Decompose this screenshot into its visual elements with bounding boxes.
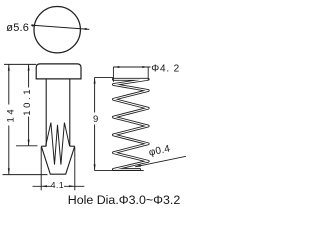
rivet stem left wall [45, 79, 47, 146]
barb ledge left [41, 145, 46, 147]
tapered legs and bottom face [41, 146, 74, 174]
top extension line 9 [95, 76, 114, 78]
spring coil white core [113, 79, 148, 169]
dimension line 14 [8, 64, 10, 174]
dimension line 9 [94, 77, 96, 170]
right prong [61, 123, 70, 165]
arrowhead left of ⌀5.6 [32, 24, 37, 26]
extension line 4.1 right [74, 147, 76, 190]
svg-text:Φ4. 2: Φ4. 2 [151, 64, 180, 75]
rivet stem right wall [69, 79, 71, 146]
extension line at barb level for 10.1 [16, 145, 38, 147]
svg-text:4.1: 4.1 [51, 180, 64, 190]
svg-text:φ0.4: φ0.4 [148, 143, 171, 158]
leader line φ0.4 [135, 156, 186, 167]
arrow 10.1 top [28, 65, 30, 71]
arrowhead right of ⌀5.6 [82, 28, 87, 30]
center spike [55, 125, 61, 165]
barb ledge right [70, 145, 75, 147]
arrow ⌀4.2 right [142, 66, 148, 68]
svg-text:10.1: 10.1 [22, 87, 33, 116]
top extension line left view [4, 63, 36, 65]
arrow 10.1 bottom [28, 140, 30, 146]
svg-text:Hole Dia.Φ3.0~Φ3.2: Hole Dia.Φ3.0~Φ3.2 [68, 193, 181, 207]
arrow 4.1 left [41, 185, 47, 187]
extension line 4.1 left [40, 147, 42, 190]
arrowhead φ0.4 [135, 164, 141, 167]
bottom extension line 9 [95, 170, 144, 172]
svg-text:9: 9 [93, 114, 98, 125]
left prong [46, 123, 55, 165]
svg-text:ø5.6: ø5.6 [6, 22, 29, 34]
rivet cap side view [36, 64, 81, 79]
extension line ⌀4.2 left [112, 67, 114, 82]
screw head top view circle [34, 7, 80, 53]
spring coil body double line [113, 79, 148, 169]
arrow 9 top [94, 78, 96, 84]
arrow ⌀4.2 left [114, 66, 120, 68]
dimension line 10.1 [28, 64, 30, 145]
arrow 9 bottom [94, 164, 96, 170]
bottom extension line for 14 [3, 174, 48, 176]
arrow 4.1 right [69, 185, 75, 187]
dimension line ⌀4.2 [113, 66, 150, 68]
arrow 14 bottom [8, 168, 10, 174]
svg-text:14: 14 [6, 107, 17, 123]
slot line / diameter leader through head [31, 25, 89, 29]
arrow 14 top [8, 65, 10, 71]
dimension line 4.1 [33, 185, 85, 187]
extension line ⌀4.2 right [147, 67, 149, 81]
